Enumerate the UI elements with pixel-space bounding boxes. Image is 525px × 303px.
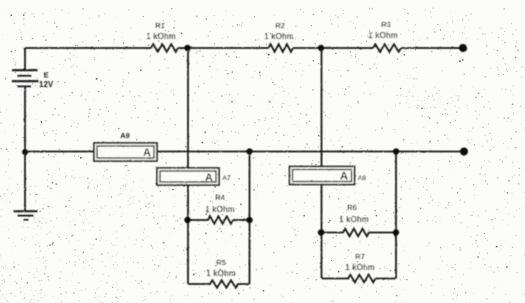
svg-text:R3: R3 xyxy=(381,20,391,29)
wire R6R7 right vertical xyxy=(395,152,397,279)
ammeter A9 xyxy=(94,143,157,161)
node middle rail R4R5 junction xyxy=(246,148,252,154)
resistor R5 xyxy=(188,280,250,288)
node R6 right junction xyxy=(393,229,399,235)
svg-text:1 kOhm: 1 kOhm xyxy=(146,32,176,41)
wire ground lead xyxy=(24,152,26,211)
wire R2-R3 junction to A8 xyxy=(321,48,323,167)
wire E negative lead xyxy=(24,86,26,152)
node top rail right terminal xyxy=(459,44,467,52)
wire middle rail xyxy=(25,151,464,153)
svg-text:A9: A9 xyxy=(120,131,130,140)
wire R4 right lead xyxy=(233,219,250,221)
svg-text:1 kOhm: 1 kOhm xyxy=(345,263,375,272)
svg-text:A: A xyxy=(205,172,213,184)
node R1-R2 junction xyxy=(184,45,190,51)
node R4 right junction xyxy=(246,217,252,223)
svg-text:R5: R5 xyxy=(216,258,226,267)
svg-text:1 kOhm: 1 kOhm xyxy=(205,205,235,214)
svg-text:1 kOhm: 1 kOhm xyxy=(206,269,236,278)
wire E positive lead xyxy=(24,48,26,70)
svg-text:R2: R2 xyxy=(275,21,285,30)
node middle rail right terminal xyxy=(460,148,468,156)
svg-text:R7: R7 xyxy=(355,252,365,261)
resistor R6 xyxy=(321,229,396,237)
svg-text:A7: A7 xyxy=(223,175,231,182)
svg-text:A8: A8 xyxy=(358,175,366,182)
node R6 left junction xyxy=(318,229,324,235)
svg-text:12V: 12V xyxy=(39,80,54,89)
svg-text:1 kOhm: 1 kOhm xyxy=(339,215,369,224)
wire A7 to R4R5 branch xyxy=(187,185,189,284)
resistor R3 xyxy=(373,44,401,52)
ground xyxy=(14,211,38,220)
svg-text:A: A xyxy=(143,147,151,159)
wire R4R5 right vertical xyxy=(249,152,251,285)
svg-text:1 kOhm: 1 kOhm xyxy=(368,31,398,40)
node battery-middle junction xyxy=(22,149,28,155)
ammeter A8 xyxy=(290,167,355,185)
node middle rail R6R7 junction xyxy=(393,148,399,154)
wire top rail xyxy=(25,47,463,49)
svg-text:E: E xyxy=(44,71,49,80)
resistor R7 xyxy=(322,275,396,283)
wire A8 to R6R7 branch xyxy=(321,185,323,279)
resistor R4 xyxy=(188,216,234,224)
battery E xyxy=(12,70,39,86)
resistor R1 xyxy=(151,44,178,52)
node R2-R3 junction xyxy=(318,45,324,51)
svg-text:1 kOhm: 1 kOhm xyxy=(264,32,294,41)
wire R1-R2 junction to A7 xyxy=(187,48,189,168)
svg-text:A: A xyxy=(340,171,348,183)
resistor R2 xyxy=(269,44,293,52)
svg-text:R4: R4 xyxy=(215,193,225,202)
svg-text:R6: R6 xyxy=(347,203,357,212)
node R4 left junction xyxy=(184,217,190,223)
ammeter A7 xyxy=(157,168,219,185)
svg-text:R1: R1 xyxy=(155,21,165,30)
